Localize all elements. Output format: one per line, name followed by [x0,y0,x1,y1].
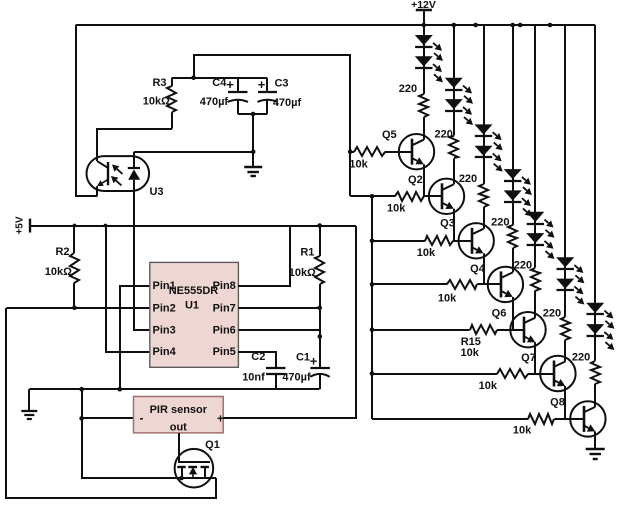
svg-text:Q5: Q5 [382,129,397,141]
junction dot R1 top [317,223,322,228]
svg-text:10k: 10k [349,158,368,170]
wire node caps to transistor-base feed [194,55,350,196]
wire left frame / bottom frame [6,308,216,498]
svg-text:Q7: Q7 [521,352,536,364]
wire Q5 emitter to next base row [423,164,425,196]
wire U3 LED cathode to ground node [134,150,255,155]
wire R1/Pin7 node down to C1 [318,308,323,368]
wire Q3 emitter to next base row [483,253,485,284]
capacitor C2 10nf [242,351,285,389]
svg-text:220: 220 [543,307,561,319]
svg-text:Pin7: Pin7 [213,302,236,314]
wire Q2 emitter to next base row [453,209,455,241]
svg-text:out: out [170,422,187,434]
svg-text:C1: C1 [296,352,310,364]
junction dot PIR- [79,416,84,421]
wire Q7 emitter to next base row [564,386,566,419]
transistor Q2 NPN [429,179,464,214]
wire Pin7 to R1 bottom [238,306,322,311]
wire base feed vertical [371,196,373,419]
op-to-coupler U3 [87,152,150,197]
svg-text:R2: R2 [55,246,69,258]
resistor base 10k for Q4 [372,280,501,304]
svg-text:U1: U1 [185,299,199,311]
resistor R1 10kOhm [289,226,324,308]
transistor Q6 NPN [510,312,545,347]
junction dot Pin1 branch bottom [117,387,122,392]
wire +12V top bus [76,24,596,26]
junction dots on +12V bus [422,23,553,28]
svg-text:Q6: Q6 [492,307,507,319]
wire R3/C4/C3 top node [172,77,267,79]
wire Q4 emitter to next base row [512,297,514,330]
svg-text:+: + [258,77,266,92]
wire PIR+ to +5V bus [223,226,356,418]
capacitor C3 470uf [258,77,302,114]
wire left frame from +12V bus to U3 emitter [76,25,97,196]
svg-text:R1: R1 [300,247,314,259]
resistor base 10k for Q8 [372,414,584,437]
capacitor C4 470uf [200,77,248,114]
capacitor C1 470uf [282,352,330,390]
svg-text:10k: 10k [479,380,498,392]
svg-text:10k: 10k [438,292,457,304]
svg-text:Q2: Q2 [408,174,423,186]
label Q2 [408,174,423,186]
wire Q8 emitter to ground [594,431,596,448]
LED chain + 220 resistor to Q6 [514,25,555,318]
svg-text:C3: C3 [274,78,288,90]
ground under C4/C3 [244,152,262,176]
svg-text:470µf: 470µf [200,96,229,108]
junction dot Q5 base feed [348,149,353,154]
resistor R3 10kOhm [143,77,176,129]
svg-text:470µf: 470µf [282,371,311,383]
svg-text:470µf: 470µf [273,97,302,109]
svg-text:10kΩ: 10kΩ [289,267,316,279]
svg-text:Pin5: Pin5 [213,346,236,358]
wire Pin2 row to left frame [7,307,150,309]
transistor Q1 MOSFET [175,433,214,488]
svg-text:+12V: +12V [411,0,436,11]
label U3 [149,186,163,198]
svg-text:-: - [140,411,144,425]
wire PIR- stub [82,417,134,419]
transistor Q8 NPN [570,401,605,436]
svg-text:Pin2: Pin2 [153,302,176,314]
LED chain + 220 resistor to Q8 [572,25,614,407]
transistor Q4 NPN [488,267,523,302]
svg-text:220: 220 [459,173,477,185]
svg-text:10k: 10k [387,203,406,215]
transistor Q7 NPN [540,356,575,391]
junction dot cap-node [191,75,196,80]
svg-text:R15: R15 [461,336,481,348]
LED chain + 220 resistor to Q3 [459,25,503,229]
svg-text:+: + [217,412,224,426]
svg-text:R3: R3 [152,77,166,89]
resistor base 10k for Q3 [372,236,472,259]
ground right under Q8 [586,449,605,459]
wire feed corner to Q8 row [371,418,373,420]
svg-text:Pin3: Pin3 [153,324,176,336]
wire Pin4 branch [106,226,150,352]
svg-text:220: 220 [514,259,532,271]
svg-text:10kΩ: 10kΩ [143,95,170,107]
wire Pin1 branch [120,286,150,389]
svg-text:220: 220 [491,217,509,229]
svg-text:10k: 10k [513,425,532,437]
wire gnd rail to PIR- and Q1 [82,389,216,478]
svg-text:Q8: Q8 [550,397,565,409]
LED chain + 220 resistor to Q4 [491,25,532,272]
svg-text:U3: U3 [149,186,163,198]
LED chain + 220 resistor to Q5 [399,25,443,140]
svg-text:10kΩ: 10kΩ [45,266,72,278]
svg-text:220: 220 [572,352,590,364]
wire Q6 emitter to next base row [534,342,536,373]
junction dot gnd-PIR branch [79,387,84,392]
junction dot R2 top [73,224,77,228]
label Q8 [550,397,565,409]
svg-text:Pin4: Pin4 [153,346,177,358]
PIR sensor box [134,397,225,434]
ground left [21,389,37,419]
junction dot R2 bottom [72,306,77,311]
label Q5 [382,129,397,141]
svg-text:NE555DR: NE555DR [169,285,219,297]
label Q4 [470,263,486,275]
junction dot pin4 branch [104,224,108,228]
svg-text:Pin6: Pin6 [213,324,236,336]
LED chain + 220 resistor to Q2 [435,25,473,184]
svg-text:+: + [226,77,234,92]
svg-text:C2: C2 [251,351,265,363]
wire Pin6 to C1 branch [238,329,319,331]
svg-text:10k: 10k [461,347,480,359]
wire R3 bottom to U3 collector [97,129,172,156]
pin labels U1 [153,280,236,358]
wire cap bottom node [238,112,267,152]
op-amp U1 NE555DR box [150,262,239,367]
wire ground rail y=389 [29,388,319,390]
svg-text:C4: C4 [212,77,227,89]
wire Pin5 to C2 [238,352,276,368]
power +12V symbol [411,0,436,25]
svg-text:220: 220 [435,128,453,140]
LED chain + 220 resistor to Q7 [543,25,585,362]
label Q6 [492,307,507,319]
svg-text:Q1: Q1 [205,439,220,451]
svg-text:10nf: 10nf [242,371,265,383]
transistor Q5 NPN [399,134,434,169]
svg-text:PIR sensor: PIR sensor [150,404,208,416]
resistor base 10k for Q5 [349,147,412,170]
svg-text:220: 220 [399,83,417,95]
resistor base 10k for Q6 [372,325,524,359]
wire +5V bus [30,225,356,227]
svg-text:Q3: Q3 [440,218,455,230]
label Q3 [440,218,455,230]
label Q7 [521,352,536,364]
junction dots base feed [370,194,375,376]
power +5V symbol [15,216,31,234]
svg-text:10k: 10k [417,247,436,259]
transistor Q3 NPN [459,223,494,258]
wire U3 anode down to Pin3 [134,191,150,330]
resistor R2 10kOhm [45,226,79,308]
svg-text:+5V: +5V [15,216,26,234]
resistor base 10k for Q2 [350,192,442,215]
resistor base 10k for Q7 [372,369,554,392]
wire Pin8 to +5V bus [238,226,290,286]
label Q1 [205,439,220,451]
svg-text:+: + [310,353,318,368]
